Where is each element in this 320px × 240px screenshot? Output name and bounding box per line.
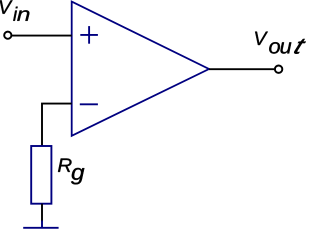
wire Rg to ground [41, 204, 43, 222]
resistor Rg [31, 146, 51, 204]
op-amp U1 [72, 2, 209, 136]
op-amp + (non-inverting input mark) [80, 26, 98, 44]
wire - input to Rg [42, 104, 72, 146]
label Vout [255, 32, 307, 54]
label Vin [0, 0, 29, 20]
input terminal [4, 32, 11, 39]
ground [23, 221, 58, 228]
wire Vin terminal to + input [12, 35, 72, 37]
output terminal [275, 66, 282, 73]
op-amp - (inverting input mark) [80, 103, 98, 105]
label Rg [58, 158, 84, 184]
wire op-amp output to Vout terminal [209, 68, 274, 70]
